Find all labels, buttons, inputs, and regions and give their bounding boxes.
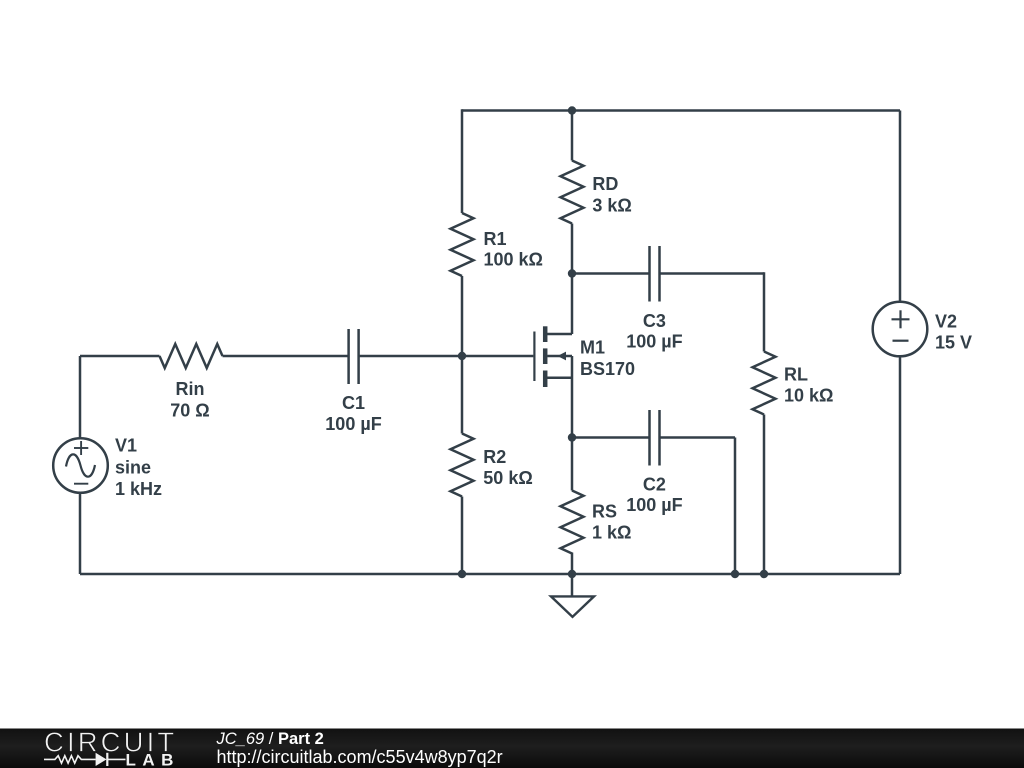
resistor RL xyxy=(753,352,776,415)
svg-text:V2: V2 xyxy=(935,312,957,332)
wire source stub xyxy=(571,356,574,438)
footer bar xyxy=(0,729,1024,768)
svg-text:C1: C1 xyxy=(342,393,365,413)
svg-text:R2: R2 xyxy=(483,447,506,467)
svg-text:RS: RS xyxy=(592,502,617,522)
node VDD-RD junction xyxy=(568,106,576,114)
wire RD top xyxy=(571,111,574,161)
wire RD bottom to drain node xyxy=(571,224,574,274)
wire C2 right down to rail xyxy=(660,436,736,439)
wire C1 to gate node xyxy=(359,355,462,358)
svg-text:BS170: BS170 xyxy=(580,359,635,379)
svg-text:http://circuitlab.com/c55v4w8y: http://circuitlab.com/c55v4w8yp7q2r xyxy=(217,747,503,767)
wire V1 top branch xyxy=(79,356,82,438)
wire R2 top xyxy=(461,356,464,434)
svg-text:C2: C2 xyxy=(643,475,666,495)
svg-text:10 kΩ: 10 kΩ xyxy=(784,385,833,405)
svg-text:100 µF: 100 µF xyxy=(626,332,682,352)
resistor RD xyxy=(561,161,584,224)
svg-text:1 kHz: 1 kHz xyxy=(115,479,162,499)
node R2-rail junction xyxy=(458,570,466,578)
logo resistor squiggle xyxy=(44,756,96,764)
wire gate xyxy=(462,355,533,358)
svg-text:LAB: LAB xyxy=(126,751,180,768)
source V1 xyxy=(53,438,108,493)
svg-text:M1: M1 xyxy=(580,337,605,357)
wire R2 bottom xyxy=(461,497,464,575)
svg-text:sine: sine xyxy=(115,458,151,478)
svg-text:R1: R1 xyxy=(484,229,507,249)
wire bottom rail xyxy=(80,573,900,576)
node source junction xyxy=(568,433,576,441)
capacitor C1 xyxy=(347,329,350,384)
node C2-rail junction xyxy=(731,570,739,578)
capacitor C3 xyxy=(648,246,651,302)
wire C2 left xyxy=(572,436,650,439)
wire C3 right to RL top xyxy=(660,272,765,275)
svg-text:JC_69 / Part 2: JC_69 / Part 2 xyxy=(216,730,324,748)
resistor Rin xyxy=(160,344,223,368)
wire RS bottom xyxy=(571,553,574,575)
logo diode xyxy=(96,753,107,766)
svg-text:C3: C3 xyxy=(643,311,666,331)
node RL-rail junction xyxy=(760,570,768,578)
svg-text:V1: V1 xyxy=(115,436,137,456)
wire R1 bottom to gate node xyxy=(461,276,464,356)
wire top rail VDD xyxy=(462,109,900,112)
svg-text:50 kΩ: 50 kΩ xyxy=(483,468,532,488)
svg-text:RD: RD xyxy=(592,174,618,194)
svg-text:15 V: 15 V xyxy=(935,333,972,353)
wire drain stub xyxy=(571,274,574,335)
node ground-rail junction xyxy=(568,570,576,578)
svg-text:1 kΩ: 1 kΩ xyxy=(592,523,631,543)
source V2 xyxy=(873,302,928,357)
wire Rin to C1 xyxy=(223,355,349,358)
resistor R2 xyxy=(451,434,474,497)
wire RL bottom xyxy=(763,415,766,575)
svg-text:100 µF: 100 µF xyxy=(626,495,682,515)
svg-text:RL: RL xyxy=(784,365,808,385)
transistor M1 xyxy=(534,326,572,387)
svg-text:70 Ω: 70 Ω xyxy=(170,401,209,421)
wire V2 top branch xyxy=(899,111,902,302)
node drain junction xyxy=(568,269,576,277)
svg-text:Rin: Rin xyxy=(176,379,205,399)
svg-text:3 kΩ: 3 kΩ xyxy=(592,195,631,215)
resistor R1 xyxy=(451,213,474,276)
wire C3 left xyxy=(572,272,650,275)
wire V2 bottom branch xyxy=(899,356,902,574)
node gate junction xyxy=(458,352,466,360)
wire input xyxy=(80,355,160,358)
wire R1 top xyxy=(461,109,464,213)
ground xyxy=(551,574,594,617)
resistor RS xyxy=(561,491,584,554)
capacitor C2 xyxy=(648,410,651,466)
wire V1 bottom branch xyxy=(79,493,82,574)
wire RS top xyxy=(571,438,574,491)
svg-text:100 µF: 100 µF xyxy=(325,414,381,434)
svg-text:100 kΩ: 100 kΩ xyxy=(484,250,543,270)
